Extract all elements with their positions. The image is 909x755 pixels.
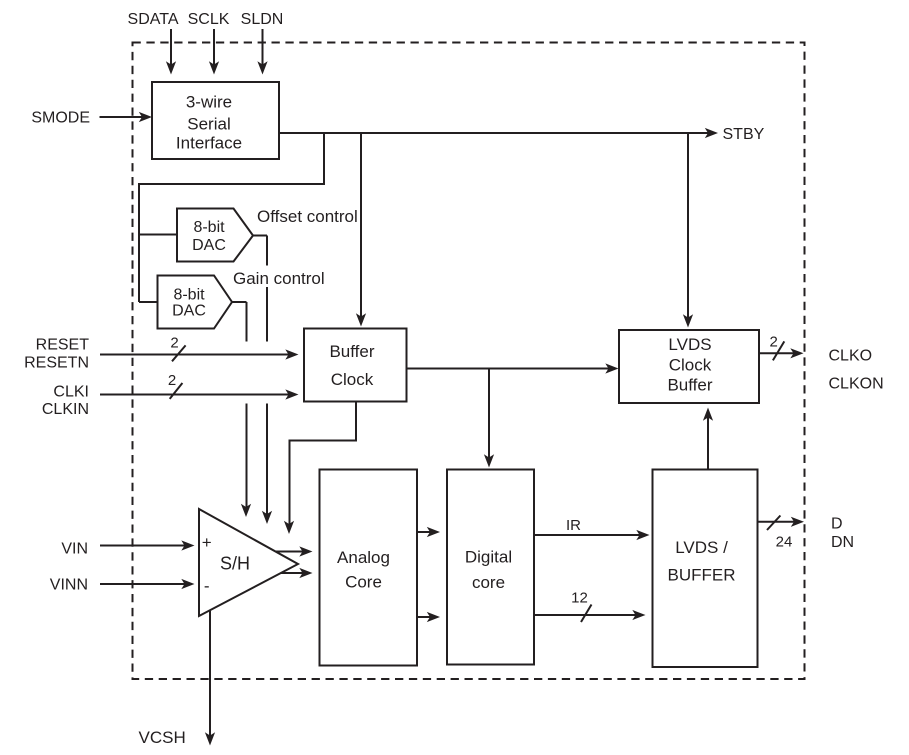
wire serial interface to DAC bus [139, 133, 324, 302]
svg-text:STBY: STBY [723, 126, 765, 143]
svg-text:RESET: RESET [36, 337, 90, 354]
wire SDATA input [166, 29, 176, 75]
wire S/H to Analog Core lower [281, 568, 313, 578]
block DAC1: 8-bit DAC (offset) [177, 209, 253, 262]
wire Analog Core to Digital core upper [417, 527, 440, 537]
svg-text:Digital: Digital [465, 548, 512, 567]
wire STBY net: serial interface to STBY pin [279, 128, 718, 138]
wire DAC2 output (gain control) down to S/H [232, 302, 251, 517]
wire branch down to LVDS Clock Buffer [683, 133, 693, 328]
svg-text:+: + [202, 533, 212, 552]
svg-text:8-bit: 8-bit [173, 287, 205, 304]
svg-text:SMODE: SMODE [31, 110, 90, 127]
svg-text:DAC: DAC [192, 237, 226, 254]
svg-text:Clock: Clock [669, 355, 712, 374]
svg-text:2: 2 [168, 372, 176, 389]
wire Buffer Clock to LVDS Clock Buffer [407, 363, 619, 373]
wire LVDS/BUFFER up to LVDS Clock Buffer [703, 408, 713, 470]
wire VCSH output [205, 611, 215, 746]
svg-text:2: 2 [770, 334, 778, 351]
svg-text:SCLK: SCLK [188, 11, 230, 28]
svg-text:24: 24 [776, 534, 793, 551]
svg-text:DAC: DAC [172, 303, 206, 320]
label 8-bit DAC (offset) [192, 219, 226, 254]
svg-text:Gain control: Gain control [233, 269, 325, 288]
dashed chip boundary [133, 43, 805, 680]
svg-text:3-wire: 3-wire [186, 93, 232, 112]
svg-text:2: 2 [170, 335, 178, 352]
svg-text:CLKO: CLKO [829, 347, 873, 364]
wire CLKI/CLKIN input bus [100, 383, 299, 400]
block U2: Buffer Clock [304, 329, 407, 402]
svg-text:Interface: Interface [176, 134, 242, 153]
wire IR bus to LVDS/BUFFER [534, 530, 650, 540]
wire Analog Core to Digital core lower [417, 612, 440, 622]
wire branch down to Digital core [484, 369, 494, 468]
wire DAC1 output (offset control) down to S/H [253, 236, 272, 525]
wire SMODE input [100, 112, 153, 122]
svg-text:core: core [472, 573, 505, 592]
svg-text:Offset control: Offset control [257, 207, 358, 226]
svg-text:LVDS: LVDS [668, 335, 711, 354]
block U1: 3-wire Serial Interface [152, 82, 279, 159]
wire CLKO output bus [759, 341, 804, 360]
wire VINN input [100, 579, 195, 589]
svg-text:Core: Core [345, 573, 382, 592]
svg-text:VINN: VINN [50, 577, 88, 594]
wire RESET/RESETN input bus [100, 345, 299, 361]
svg-text:DN: DN [831, 534, 854, 551]
svg-text:Buffer: Buffer [329, 342, 374, 361]
svg-text:12: 12 [571, 590, 588, 607]
label 8-bit DAC (gain) [172, 287, 206, 320]
svg-text:8-bit: 8-bit [193, 219, 225, 236]
svg-text:CLKIN: CLKIN [42, 401, 89, 418]
svg-text:SDATA: SDATA [128, 11, 179, 28]
svg-text:RESETN: RESETN [24, 355, 89, 372]
svg-text:CLKON: CLKON [829, 375, 884, 392]
svg-text:LVDS /: LVDS / [675, 538, 728, 557]
svg-text:BUFFER: BUFFER [668, 566, 736, 585]
svg-text:SLDN: SLDN [241, 11, 284, 28]
wire Buffer Clock bottom to S/H [284, 402, 356, 535]
svg-text:Clock: Clock [331, 370, 374, 389]
wire S/H to Analog Core upper [276, 546, 313, 556]
block U7: LVDS / BUFFER [653, 470, 758, 668]
wire 12-bit bus to LVDS/BUFFER [534, 605, 646, 623]
wire SCLK input [209, 29, 219, 75]
block DAC2: 8-bit DAC (gain) [158, 276, 233, 329]
svg-text:VCSH: VCSH [139, 728, 186, 747]
svg-text:Analog: Analog [337, 548, 390, 567]
label Gain control (with white mask over wire) [231, 267, 322, 287]
block U5: Analog Core [320, 470, 418, 666]
svg-text:CLKI: CLKI [53, 384, 89, 401]
svg-text:D: D [831, 516, 843, 533]
wire branch down to Buffer Clock [356, 133, 366, 327]
wire D/DN output bus [758, 516, 805, 531]
svg-text:IR: IR [566, 517, 581, 534]
svg-text:Serial: Serial [187, 115, 230, 134]
svg-text:Buffer: Buffer [667, 375, 712, 394]
block U6: Digital core [447, 470, 534, 665]
svg-text:-: - [204, 577, 210, 596]
wire SLDN input [257, 29, 267, 75]
svg-text:VIN: VIN [61, 541, 88, 558]
wire VIN input [100, 540, 195, 550]
block U3: LVDS Clock Buffer [619, 330, 759, 403]
svg-text:S/H: S/H [220, 554, 250, 574]
op-amp U4: S/H triangle [199, 509, 298, 616]
